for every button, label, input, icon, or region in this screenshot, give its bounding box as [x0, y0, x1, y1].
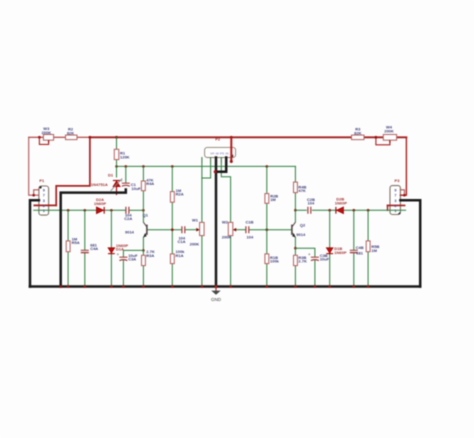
resistor R5A — [66, 237, 80, 252]
connector P2 body — [205, 147, 236, 157]
svg-text:3: 3 — [43, 199, 45, 203]
wire thick black P2 pin2 to ground — [215, 158, 218, 287]
wire P3 pin 2 red — [388, 204, 405, 206]
wire C1A to W1 wiper — [185, 229, 197, 231]
wire Q1 emitter to junction — [142, 238, 144, 251]
svg-text:1M: 1M — [270, 197, 276, 202]
wire right green output line — [295, 209, 405, 211]
svg-text:R1A: R1A — [176, 253, 184, 258]
wire R2A R1A vertical — [171, 166, 173, 286]
wire R3A vertical — [142, 250, 144, 286]
node R4B bottom junction — [294, 209, 297, 212]
diode D2A 1N60P — [94, 197, 107, 214]
node C4B top — [353, 209, 356, 212]
svg-text:C3A: C3A — [128, 257, 136, 262]
potentiometer W4 — [383, 125, 396, 143]
svg-text:C1B: C1B — [245, 220, 253, 225]
potentiometer W1 — [192, 218, 204, 236]
wire R5B vertical — [367, 210, 369, 286]
wire ground bus bottom — [30, 285, 420, 288]
resistor R2B — [265, 193, 278, 203]
wire Q2 emitter to junction — [294, 238, 296, 249]
node rail R2B — [266, 165, 269, 168]
node C4A top — [84, 209, 87, 212]
svg-text:7: 7 — [394, 194, 396, 198]
wire green line C2A to Q1 node — [130, 209, 144, 211]
capacitor C3B 10uF — [308, 253, 329, 262]
wire C3B bottom — [314, 260, 316, 287]
wire thick black P2 pin4 jog — [216, 158, 226, 172]
svg-text:VF-W P5 IN: VF-W P5 IN — [210, 152, 229, 156]
svg-text:C4B: C4B — [356, 245, 364, 250]
resistor R2 — [66, 127, 78, 140]
node W3 left junction — [38, 136, 41, 139]
node P1 pin7 junction — [32, 194, 35, 197]
svg-text:2.7K: 2.7K — [298, 258, 307, 263]
svg-text:9: 9 — [394, 188, 396, 192]
svg-text:C2A: C2A — [124, 216, 132, 221]
wire Q1 collector — [142, 210, 144, 222]
wire red riser P1 pin2 to bus — [56, 137, 90, 205]
wire R2B R1B vertical — [266, 166, 268, 286]
svg-text:9014: 9014 — [296, 232, 306, 237]
resistor R3A — [142, 249, 155, 265]
svg-text:1: 1 — [43, 209, 45, 213]
wire P1 pin 9 loop — [34, 190, 39, 195]
wire R4A vertical — [142, 166, 144, 210]
svg-text:104: 104 — [247, 235, 254, 240]
node base-R2A junction — [171, 228, 174, 231]
node W4 loop junction — [375, 136, 378, 139]
svg-text:W2: W2 — [222, 220, 229, 225]
svg-text:D1: D1 — [108, 173, 114, 178]
svg-text:9014: 9014 — [125, 229, 135, 234]
node base-R2B junction — [266, 228, 269, 231]
capacitor C3A 10uF — [117, 253, 138, 262]
node rail R1 — [115, 165, 118, 168]
svg-text:Q1: Q1 — [143, 212, 149, 217]
svg-text:1N4751A: 1N4751A — [91, 182, 108, 187]
svg-text:3: 3 — [394, 199, 396, 203]
svg-text:47K: 47K — [298, 188, 305, 193]
wire C1 branch top — [125, 166, 127, 182]
wire P2 pin2 jog to W1 riser — [202, 158, 211, 179]
svg-text:R5A: R5A — [72, 240, 80, 245]
svg-text:200K: 200K — [222, 235, 232, 240]
node D1B top — [328, 209, 331, 212]
svg-text:R3A: R3A — [146, 253, 154, 258]
svg-text:10uF: 10uF — [320, 257, 330, 262]
node D1A top — [110, 209, 113, 212]
capacitor C4B 681 — [350, 245, 364, 256]
svg-text:681: 681 — [356, 251, 363, 256]
node R5B top — [367, 209, 370, 212]
svg-text:200K: 200K — [42, 130, 52, 135]
node R5A top — [67, 209, 70, 212]
connector P3 body — [390, 186, 400, 215]
svg-text:10uF: 10uF — [131, 186, 141, 191]
connector P1 body — [39, 186, 49, 215]
wire Q1 base line — [147, 229, 182, 231]
connector P1 pins and label — [39, 178, 45, 213]
svg-text:1M: 1M — [371, 248, 377, 253]
transistor Q2 9014 — [292, 222, 306, 237]
wire R5A vertical — [67, 210, 69, 286]
wire P3 pin2 to pin1 net link — [387, 205, 389, 210]
svg-text:1N60P: 1N60P — [335, 200, 348, 205]
svg-text:2: 2 — [394, 204, 396, 208]
resistor R1B — [265, 254, 280, 264]
node P2 jog junction — [214, 170, 217, 173]
wire W4 wiper feedback loop — [376, 137, 390, 145]
svg-text:C1A: C1A — [177, 239, 185, 244]
svg-text:D1A: D1A — [116, 246, 124, 251]
wire W2 wiper to C1B — [236, 229, 245, 231]
wire D1 cathode to black — [116, 188, 118, 195]
svg-text:1N60P: 1N60P — [94, 201, 107, 206]
node R1 top junction — [115, 136, 118, 139]
svg-text:200K: 200K — [190, 242, 200, 247]
potentiometer W2 — [222, 220, 236, 240]
svg-text:R2A: R2A — [176, 191, 184, 196]
svg-text:1N60P: 1N60P — [334, 250, 347, 255]
node rail R2A — [171, 165, 174, 168]
wire thick black P1 pin3 down — [30, 200, 39, 286]
wire thick black C1 negative to left down — [61, 190, 126, 287]
svg-text:82K: 82K — [67, 130, 74, 135]
zener diode D1 1N4751A — [91, 173, 122, 191]
wire R1 vertical — [116, 137, 118, 166]
svg-text:W1: W1 — [192, 218, 199, 223]
potentiometer W3 — [42, 126, 54, 143]
svg-text:P1: P1 — [39, 178, 45, 183]
resistor R2A — [170, 188, 183, 202]
resistor R4A — [141, 178, 154, 191]
capacitor C1 10uF — [120, 179, 141, 191]
diode D1A 1N60P — [108, 243, 128, 254]
svg-text:P3: P3 — [395, 178, 401, 183]
node Q2 emitter junction — [294, 247, 297, 250]
wire V+ top bus — [29, 136, 90, 138]
resistor R3 — [352, 127, 365, 140]
connector P2 pins and label — [202, 136, 233, 163]
svg-text:104: 104 — [308, 201, 315, 206]
wire C3A bottom — [122, 260, 124, 287]
svg-text:Q2: Q2 — [300, 222, 306, 227]
svg-text:9: 9 — [43, 188, 45, 192]
svg-text:7: 7 — [43, 194, 45, 198]
wire P3 pin 9 loop — [400, 190, 404, 195]
svg-text:2: 2 — [43, 204, 45, 208]
wire emitter junction to C3B — [295, 248, 315, 257]
wire C4B vertical — [353, 210, 355, 286]
resistor R4B — [294, 182, 307, 193]
svg-text:P2: P2 — [215, 136, 221, 141]
capacitor C2B 104 — [307, 197, 315, 214]
svg-text:1: 1 — [394, 209, 396, 213]
resistor R5B — [366, 241, 379, 253]
node rail R4A — [142, 165, 145, 168]
node ground bus junctions — [59, 285, 369, 288]
wire W3 wiper feedback loop — [39, 137, 48, 144]
node bus-P2 junction — [230, 136, 233, 139]
wire thick black right riser to P3 pin3 — [400, 200, 420, 286]
svg-text:GND: GND — [211, 297, 222, 302]
node rail C1 — [125, 165, 128, 168]
node riser-bus junction — [89, 136, 92, 139]
wire D1B vertical — [329, 210, 331, 286]
node Q1 collector junction — [142, 209, 145, 212]
ground — [211, 287, 220, 295]
wire D1A vertical — [110, 210, 112, 286]
capacitor C1B 104 — [245, 220, 254, 240]
wire W2 riser to P2 pin3 — [221, 158, 230, 223]
svg-text:C4A: C4A — [90, 246, 98, 251]
diode D2B 1N60P — [335, 197, 348, 214]
diode D1B 1N60P — [326, 246, 347, 255]
wire emitter junction to C3A — [123, 250, 143, 256]
wire Q2 collector — [294, 210, 296, 222]
wire red vertical bus right corner to P3 pin7 — [400, 137, 406, 195]
wire C1B to Q2 base — [249, 229, 292, 231]
wire left red vertical from bus to P1 pin 7 — [29, 137, 39, 195]
wire R4B vertical from rail corner — [294, 166, 296, 210]
wire D1 zener branch — [116, 166, 118, 177]
wire W2 bottom — [230, 236, 232, 287]
capacitor C2A 104 — [124, 207, 132, 221]
wire P1 pin 2 red — [34, 204, 56, 206]
wire left P1 pin1 green line — [34, 209, 126, 211]
capacitor C4A 681 — [81, 242, 99, 252]
node P3 pin7 junction — [403, 194, 406, 197]
connector P3 pins and label — [394, 178, 400, 215]
wire R3B vertical — [294, 248, 296, 286]
node Q1 emitter junction — [142, 249, 145, 252]
svg-text:100k: 100k — [270, 258, 280, 263]
wire red drop from bus into P2 — [230, 137, 232, 161]
transistor Q1 9014 — [125, 212, 149, 237]
resistor R1A — [170, 249, 185, 263]
resistor R1 — [114, 149, 129, 159]
svg-text:R4A: R4A — [146, 181, 154, 186]
resistor R3B — [294, 255, 307, 266]
wire W1 bottom — [201, 236, 203, 287]
svg-text:120K: 120K — [120, 154, 130, 159]
wire W1 riser to P2 pin1 — [201, 158, 203, 223]
svg-text:200K: 200K — [384, 129, 394, 134]
wire green rail mid — [117, 165, 296, 167]
wire C4A vertical — [84, 210, 86, 286]
svg-text:82K: 82K — [354, 130, 361, 135]
capacitor C1A 104 — [177, 226, 199, 246]
